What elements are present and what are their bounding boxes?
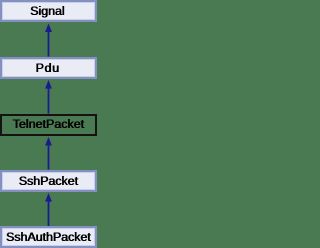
- arrow SshAuthPacket -> SshPacket: [48, 200, 50, 227]
- node Pdu: [0, 57, 97, 80]
- node Signal: [0, 0, 97, 22]
- arrow SshPacket -> TelnetPacket: [48, 144, 50, 170]
- arrow Pdu -> Signal: [48, 30, 50, 57]
- node SshAuthPacket: [0, 226, 97, 248]
- arrow TelnetPacket -> Pdu: [48, 87, 50, 114]
- node SshPacket: [0, 170, 97, 192]
- node TelnetPacket (current class): [0, 114, 97, 136]
